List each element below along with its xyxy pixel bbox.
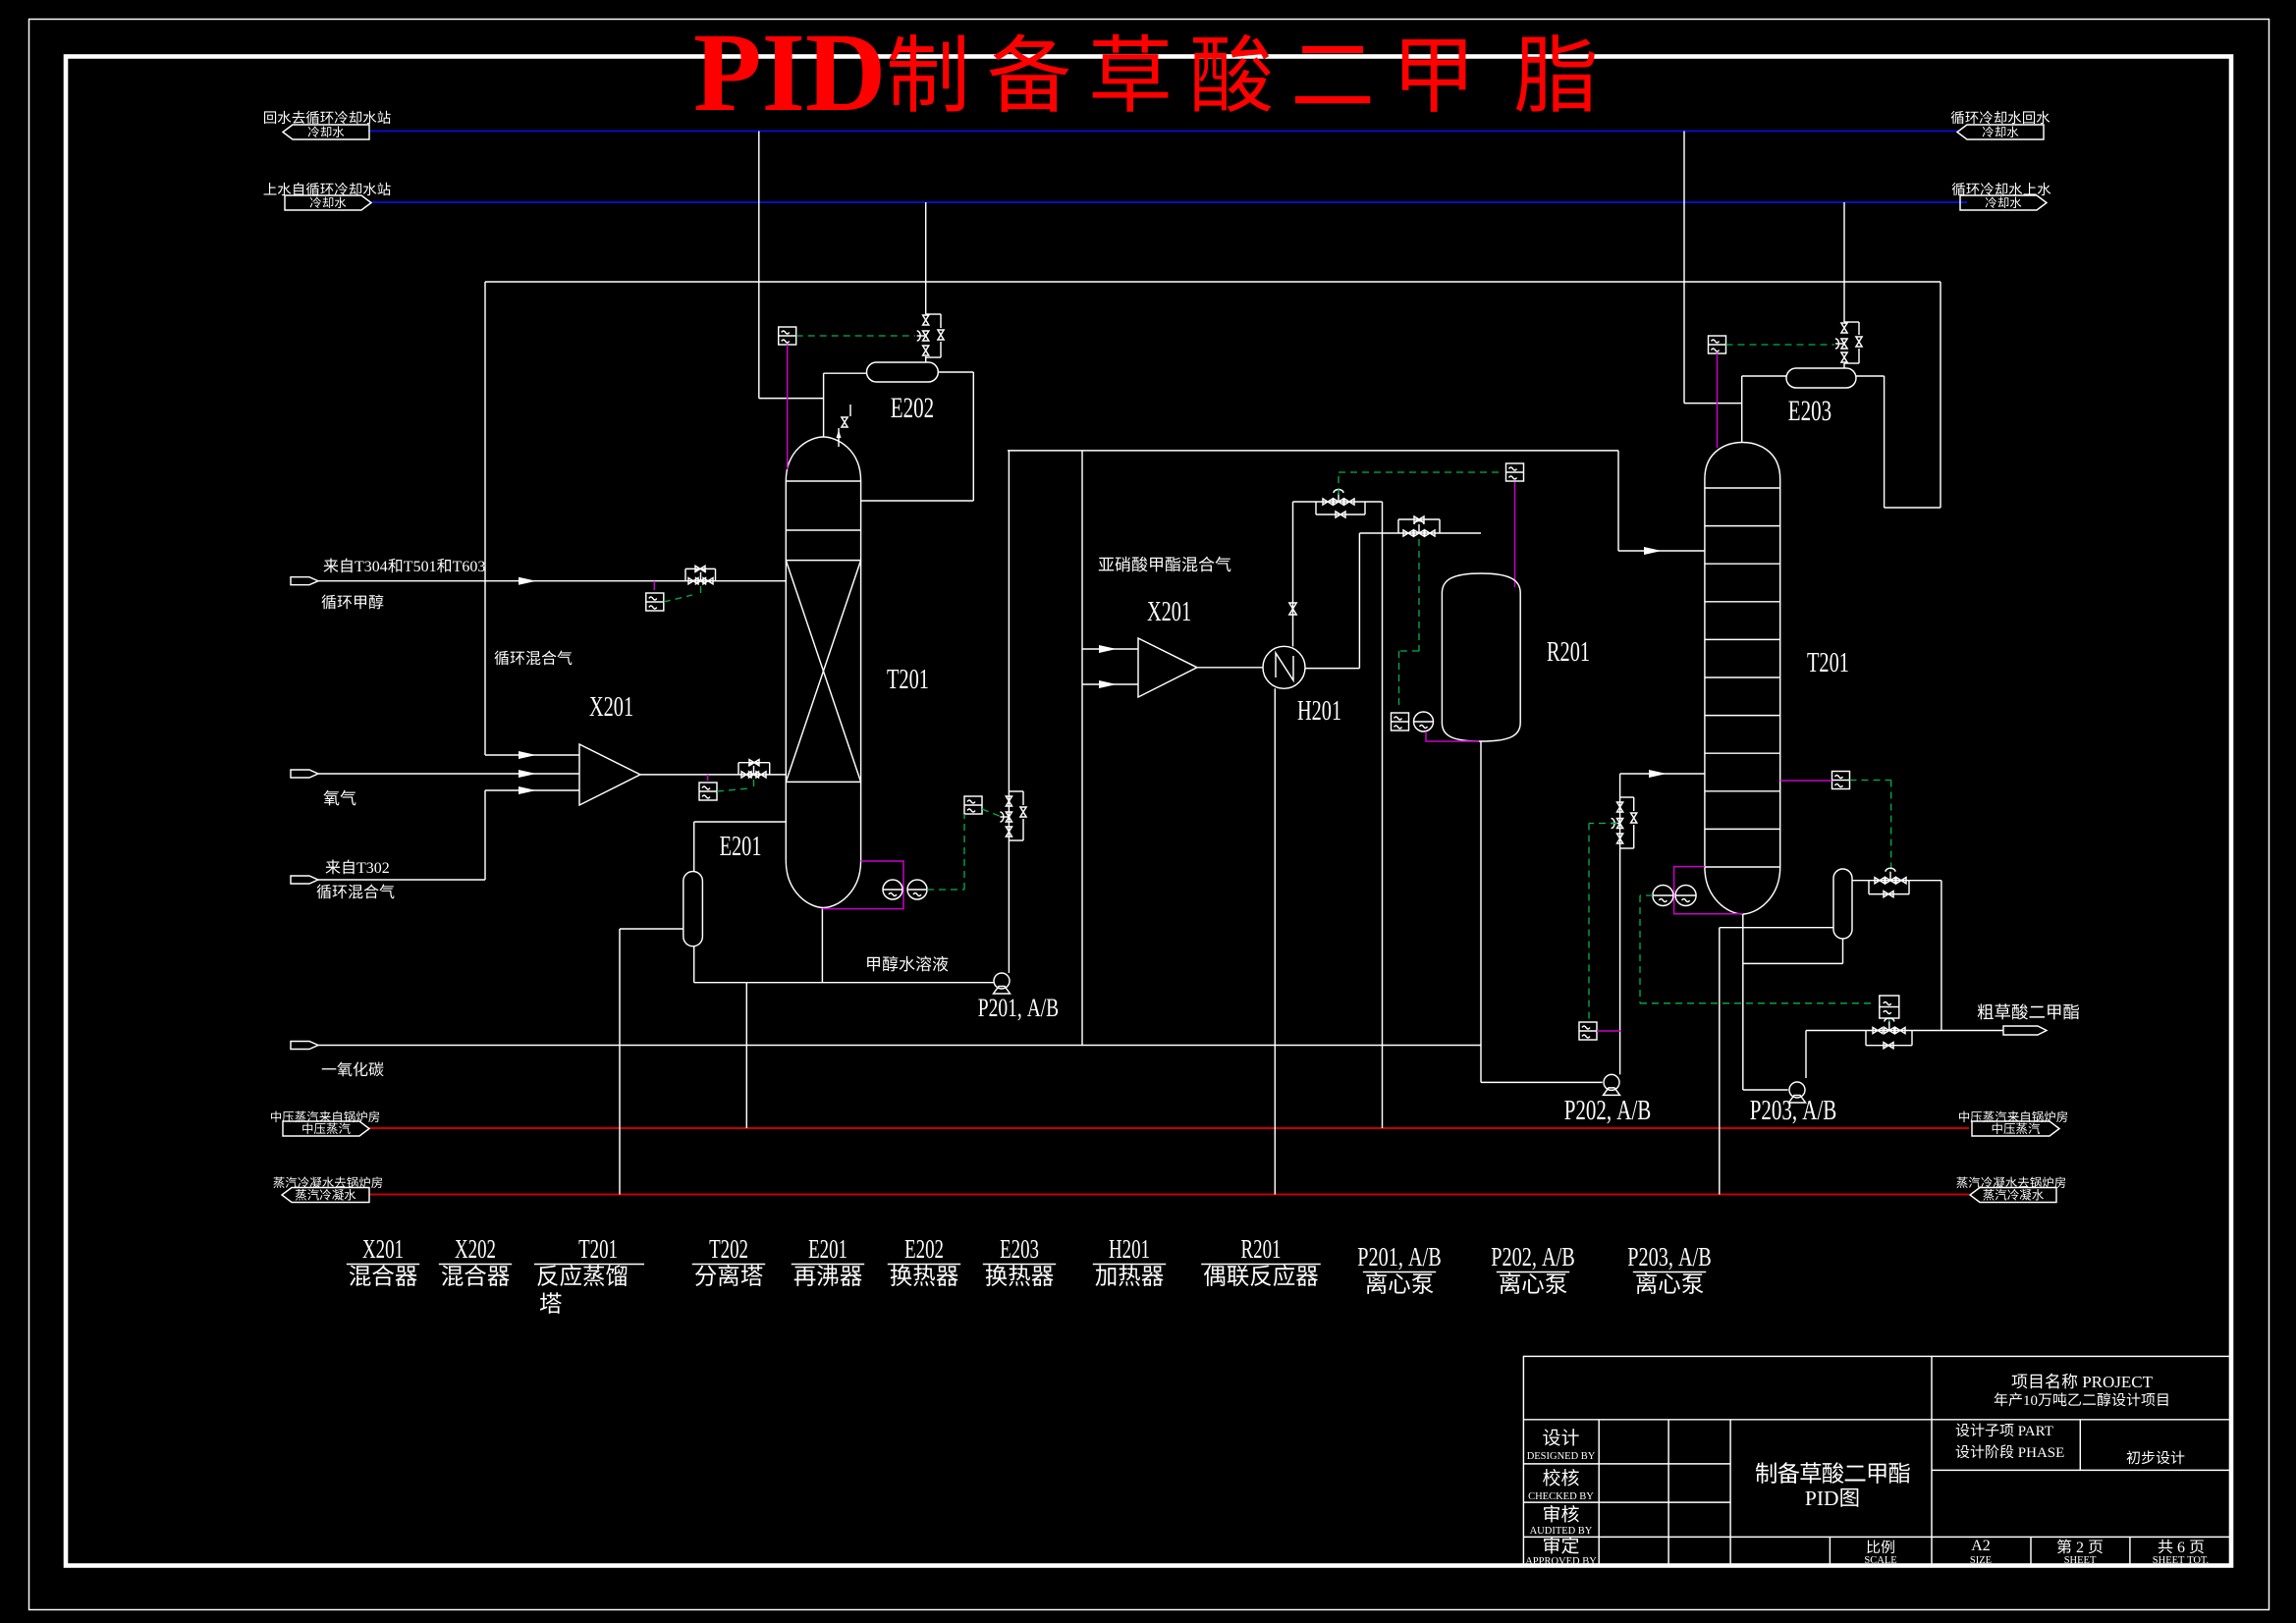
svg-text:A/B: A/B [1408,1242,1442,1271]
svg-text:P203,: P203, [1627,1242,1673,1271]
svg-text:A/B: A/B [1802,1096,1836,1126]
svg-text:E203: E203 [1000,1234,1039,1264]
svg-text:P202,: P202, [1491,1242,1537,1271]
svg-text:T201: T201 [578,1234,618,1264]
svg-text:PROJECT: PROJECT [2082,1373,2153,1391]
svg-text:BY: BY [1579,1491,1594,1502]
svg-text:PID: PID [1805,1487,1839,1510]
svg-text:T302: T302 [356,860,390,877]
svg-text:SHEET: SHEET [2153,1555,2185,1566]
svg-text:T603: T603 [453,559,486,575]
svg-text:BY: BY [1582,1556,1597,1567]
svg-text:6: 6 [2177,1540,2185,1556]
svg-text:SCALE: SCALE [1864,1555,1896,1566]
svg-text:E203: E203 [1788,395,1831,427]
svg-text:A/B: A/B [1616,1096,1651,1126]
svg-text:TOT.: TOT. [2187,1555,2209,1566]
svg-text:H201: H201 [1297,695,1341,727]
svg-text:T304: T304 [355,559,388,575]
svg-text:X201: X201 [589,691,633,723]
svg-text:PHASE: PHASE [2018,1445,2065,1461]
svg-text:PID: PID [693,10,886,135]
svg-text:H201: H201 [1109,1234,1150,1264]
svg-text:A/B: A/B [1678,1242,1712,1271]
svg-text:A2: A2 [1971,1538,1991,1554]
svg-text:E201: E201 [808,1234,847,1264]
svg-text:PART: PART [2018,1424,2053,1439]
svg-text:AUDITED: AUDITED [1530,1526,1576,1537]
svg-text:A/B: A/B [1542,1242,1575,1271]
svg-text:P201,: P201, [1357,1242,1403,1271]
svg-text:CHECKED: CHECKED [1528,1491,1577,1502]
svg-text:2: 2 [2076,1540,2084,1556]
svg-text:SIZE: SIZE [1970,1555,1992,1566]
svg-text:10: 10 [2023,1393,2038,1409]
svg-text:P202,: P202, [1564,1096,1612,1126]
svg-text:BY: BY [1581,1451,1596,1462]
svg-text:T201: T201 [1807,647,1849,678]
svg-text:E202: E202 [891,392,934,424]
svg-text:R201: R201 [1547,636,1590,668]
svg-text:X202: X202 [455,1234,496,1264]
svg-text:T202: T202 [709,1234,748,1264]
svg-text:P203,: P203, [1750,1096,1797,1126]
svg-text:E201: E201 [720,831,762,862]
svg-text:X201: X201 [1147,596,1191,627]
svg-text:X201: X201 [362,1234,404,1264]
svg-text:SHEET: SHEET [2064,1555,2097,1566]
svg-text:BY: BY [1578,1526,1593,1537]
svg-text:P201,: P201, [978,994,1022,1022]
svg-text:APPROVED: APPROVED [1525,1556,1580,1567]
svg-text:T201: T201 [887,664,929,695]
svg-text:E202: E202 [904,1234,944,1264]
svg-text:T501: T501 [404,559,437,575]
svg-text:DESIGNED: DESIGNED [1527,1451,1579,1462]
svg-text:A/B: A/B [1027,994,1060,1022]
svg-text:R201: R201 [1241,1234,1282,1264]
